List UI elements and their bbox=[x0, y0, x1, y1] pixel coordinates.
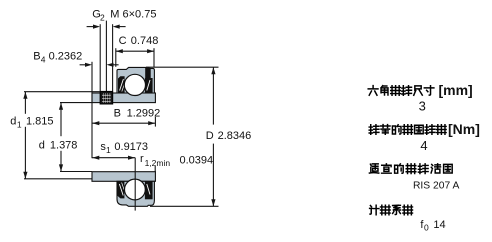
grub screw M6 bbox=[100, 91, 113, 104]
svg-text:1,2min: 1,2min bbox=[145, 158, 171, 168]
svg-text:1.378: 1.378 bbox=[50, 140, 78, 152]
table row 1 label : hex key size [mm] bbox=[368, 82, 473, 98]
svg-text:14: 14 bbox=[433, 219, 445, 231]
svg-text:r: r bbox=[140, 153, 144, 165]
B4/B/s1 extension line bbox=[91, 62, 93, 158]
ball top bbox=[124, 74, 145, 95]
table row 4 label : calculation factor bbox=[370, 205, 413, 215]
dim s1 bbox=[92, 157, 135, 159]
svg-text:B: B bbox=[33, 51, 40, 63]
dim B bbox=[92, 122, 155, 124]
shaft sleeve bar top bbox=[92, 93, 155, 103]
seal band top right bbox=[145, 68, 151, 93]
svg-text:D: D bbox=[206, 130, 214, 142]
cage section bottom left bbox=[117, 181, 124, 198]
svg-text:RIS 207 A: RIS 207 A bbox=[413, 181, 459, 192]
dim D bbox=[146, 66, 219, 68]
svg-text:1: 1 bbox=[17, 120, 22, 130]
svg-text:B: B bbox=[114, 107, 121, 119]
svg-text:0.748: 0.748 bbox=[131, 35, 159, 47]
svg-text:1: 1 bbox=[106, 145, 111, 155]
svg-text:d: d bbox=[10, 116, 16, 128]
svg-text:d: d bbox=[39, 140, 45, 152]
svg-text:0: 0 bbox=[424, 223, 429, 233]
svg-text:[Nm]: [Nm] bbox=[448, 121, 480, 137]
table row 3 label : suitable rubber seating ring bbox=[369, 164, 452, 174]
svg-text:[mm]: [mm] bbox=[439, 82, 473, 98]
dim d1 bbox=[24, 91, 100, 93]
outer ring top bbox=[117, 67, 154, 93]
ball bottom bbox=[124, 179, 145, 200]
svg-text:1.2992: 1.2992 bbox=[127, 107, 161, 119]
svg-text:0.0394: 0.0394 bbox=[180, 154, 214, 166]
cage section top left bbox=[118, 76, 125, 93]
r leader bbox=[154, 166, 156, 172]
svg-text:0.9173: 0.9173 bbox=[114, 141, 148, 153]
svg-text:C: C bbox=[119, 35, 127, 47]
dim B4 bbox=[80, 64, 86, 66]
table row 2 label : recommended tightening torque [Nm] bbox=[369, 121, 480, 137]
svg-text:2: 2 bbox=[100, 13, 105, 23]
svg-text:3: 3 bbox=[419, 98, 426, 113]
svg-text:4: 4 bbox=[420, 138, 427, 153]
dim C bbox=[116, 50, 154, 52]
svg-text:4: 4 bbox=[41, 55, 46, 65]
shaft sleeve bar bottom bbox=[92, 172, 155, 182]
G2 extension lines bbox=[99, 24, 101, 91]
svg-text:1.815: 1.815 bbox=[26, 116, 54, 128]
ball centre line bbox=[134, 158, 136, 211]
svg-text:2.8346: 2.8346 bbox=[218, 130, 252, 142]
dim G2 arrows bbox=[87, 26, 94, 28]
M6 leader bbox=[105, 21, 107, 92]
svg-text:M 6×0.75: M 6×0.75 bbox=[110, 9, 156, 21]
svg-text:0.2362: 0.2362 bbox=[49, 51, 83, 63]
outer ring bottom bbox=[117, 181, 154, 206]
dim d bbox=[60, 102, 92, 104]
seal band bottom right bbox=[145, 181, 153, 199]
